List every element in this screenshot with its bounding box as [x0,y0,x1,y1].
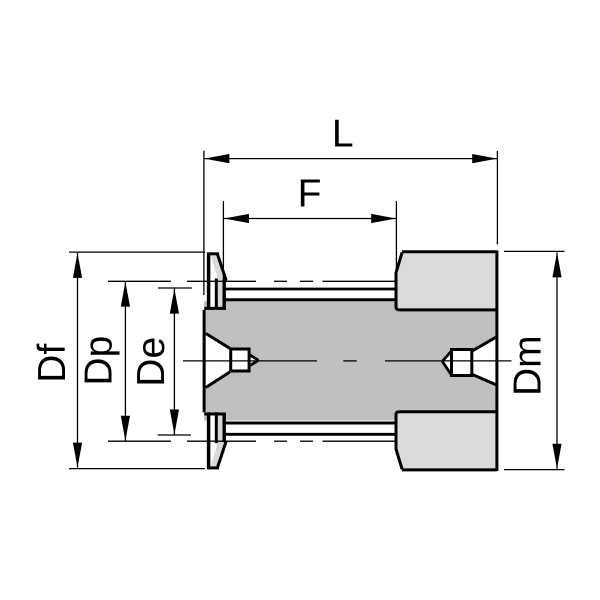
svg-text:L: L [332,113,354,156]
svg-text:F: F [298,172,322,215]
svg-text:Dm: Dm [507,335,550,396]
svg-text:De: De [130,337,173,387]
svg-text:Df: Df [31,344,74,383]
svg-text:Dp: Dp [78,336,121,386]
